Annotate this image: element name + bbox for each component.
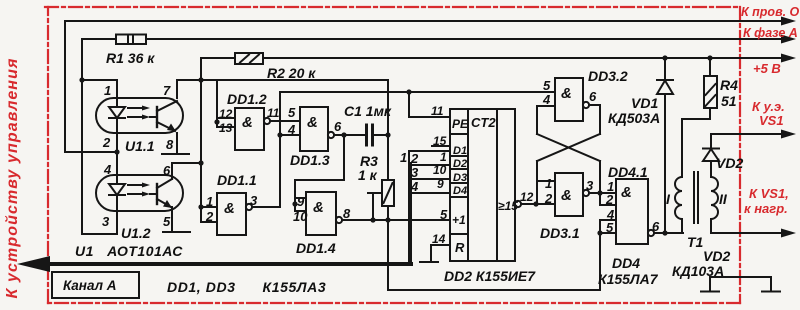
gate DD1.1 <box>217 193 246 235</box>
svg-text:+1: +1 <box>452 213 466 227</box>
capacitor C1 <box>334 134 366 136</box>
U1.1 pin8 to common <box>176 133 178 154</box>
wire R4 to T1 primary <box>682 108 710 177</box>
svg-text:КД503А: КД503А <box>608 110 660 126</box>
wire DD1.2 out to DD1.3 pin5 <box>270 120 300 122</box>
svg-text:10: 10 <box>433 163 447 177</box>
wire: phase line to arrow К фазе А <box>146 38 783 40</box>
svg-text:5: 5 <box>163 214 171 229</box>
svg-text:К пров. О: К пров. О <box>741 5 800 19</box>
svg-text:+5 В: +5 В <box>753 61 781 76</box>
svg-text:К фазе А: К фазе А <box>743 26 798 40</box>
DD1.1 output wire <box>252 206 280 208</box>
U1.1 phototransistor <box>156 107 158 127</box>
wire: U1.1 pin7 collector rail to DD1.2 inputs <box>177 80 217 98</box>
svg-text:DD3.2: DD3.2 <box>588 68 628 84</box>
counter DD2 К155ИЕ7 <box>450 109 515 261</box>
wire: U1.1 pin2 to U1.2 pin4 <box>116 133 118 175</box>
wire DD1.4 output to counter +1 input <box>342 219 450 221</box>
svg-text:D1: D1 <box>453 145 467 157</box>
svg-text:U1.1: U1.1 <box>125 138 155 154</box>
svg-text:8: 8 <box>166 137 174 152</box>
svg-text:5: 5 <box>288 105 296 120</box>
wire: node to U1.1 pin1 <box>82 80 117 98</box>
svg-text:DD4.1: DD4.1 <box>608 164 648 180</box>
svg-text:DD3.1: DD3.1 <box>540 225 580 241</box>
svg-text:DD1.4: DD1.4 <box>296 240 336 256</box>
svg-text:6: 6 <box>589 89 597 104</box>
DD4.1 pins 4,5 tie <box>600 219 616 221</box>
svg-text:Канал А: Канал А <box>63 278 117 293</box>
svg-text:D4: D4 <box>453 185 467 197</box>
DD2 R input to common <box>431 245 450 261</box>
arrow К пров.О <box>781 17 796 26</box>
gate DD3.2 <box>555 78 583 121</box>
svg-text:&: & <box>561 85 572 102</box>
svg-text:11: 11 <box>431 104 444 118</box>
U1.2 LED <box>116 175 118 184</box>
DD2 carry output <box>515 201 521 207</box>
svg-text:II: II <box>719 191 728 207</box>
resistor R2 <box>235 53 263 64</box>
svg-text:4: 4 <box>542 92 551 107</box>
transformer T1 secondary winding II <box>711 177 718 219</box>
gate DD1.4 <box>306 192 336 235</box>
svg-text:1: 1 <box>400 150 407 165</box>
link row 1 <box>409 151 450 165</box>
DD3.2 pin4 stub <box>537 105 555 107</box>
svg-text:&: & <box>313 199 324 216</box>
DD3.1 output wire to DD4.1 <box>589 192 616 194</box>
svg-text:8: 8 <box>343 206 351 221</box>
link row 3 <box>409 179 450 193</box>
resistor R1 <box>116 35 146 45</box>
U1.2 light arrows <box>128 184 146 186</box>
resistor R4 <box>709 58 711 76</box>
svg-text:D3: D3 <box>453 172 467 184</box>
wire: neutral line К пров.О <box>65 21 783 152</box>
svg-text:к нагр.: к нагр. <box>744 201 788 216</box>
svg-text:U1.2: U1.2 <box>121 225 151 241</box>
svg-text:&: & <box>224 200 235 217</box>
svg-text:R4: R4 <box>720 77 738 93</box>
optocoupler U1.1 body <box>96 98 183 133</box>
arrow К фазе А <box>781 35 796 44</box>
svg-text:3: 3 <box>250 193 258 208</box>
svg-text:VD2: VD2 <box>703 248 730 264</box>
svg-text:14: 14 <box>432 232 446 246</box>
svg-text:VS1: VS1 <box>759 113 784 128</box>
node dot R1/U1 <box>79 77 84 82</box>
optocoupler U1.2 body <box>96 175 183 211</box>
svg-text:3: 3 <box>102 214 110 229</box>
arrow К VS1 к нагр <box>781 229 796 238</box>
svg-text:К VS1,: К VS1, <box>749 186 789 201</box>
thick control bus vertical <box>408 164 412 264</box>
svg-text:1 к: 1 к <box>358 167 378 183</box>
svg-text:К у.э.: К у.э. <box>752 99 785 114</box>
wire vertical through C1 right / R3 <box>387 80 389 180</box>
link row 2 <box>409 165 450 179</box>
wire T1 secondary to load arrow <box>711 219 783 233</box>
diode VD1 <box>664 58 666 80</box>
svg-text:DD2 К155ИЕ7: DD2 К155ИЕ7 <box>444 268 536 284</box>
svg-text:6: 6 <box>163 163 171 178</box>
svg-text:R1 36 к: R1 36 к <box>106 50 155 66</box>
svg-text:2: 2 <box>410 151 419 166</box>
svg-text:&: & <box>561 187 572 204</box>
wire: left branch to pin2 node <box>65 151 117 153</box>
transformer T1 core <box>693 172 695 223</box>
svg-text:11: 11 <box>267 106 280 120</box>
svg-text:D2: D2 <box>453 158 467 170</box>
wire: +5V rail to arrow <box>263 57 783 59</box>
wire: phase line К фазе А left of R1 <box>82 38 116 40</box>
svg-text:DD1.2: DD1.2 <box>227 91 267 107</box>
node dot R2 bottom <box>198 77 203 82</box>
wire: DD1.2 input tie <box>216 80 218 127</box>
svg-text:5: 5 <box>543 78 551 93</box>
arrow +5 В <box>781 54 796 63</box>
R3 tap <box>368 192 382 194</box>
svg-text:К155ЛА7: К155ЛА7 <box>598 271 659 287</box>
svg-text:С1 1мк: С1 1мк <box>344 103 392 119</box>
svg-text:51: 51 <box>721 93 737 109</box>
svg-text:&: & <box>307 114 318 131</box>
svg-text:R2 20 к: R2 20 к <box>267 65 316 81</box>
svg-text:&: & <box>621 184 632 201</box>
diode VD2 <box>710 161 712 177</box>
svg-text:К устройству управления: К устройству управления <box>4 58 21 299</box>
U1.1 LED <box>116 98 118 107</box>
svg-text:PE: PE <box>452 117 469 131</box>
svg-text:12: 12 <box>520 190 534 204</box>
svg-text:VD2: VD2 <box>716 155 743 171</box>
svg-text:7: 7 <box>163 83 171 98</box>
channel box Канал А <box>52 272 139 298</box>
resistor R3 <box>382 180 394 206</box>
svg-text:T1: T1 <box>687 234 704 250</box>
svg-text:1: 1 <box>104 83 111 98</box>
U1.2 pin5 to common <box>171 207 173 232</box>
wire DD1.3 pin4 feedback riser <box>279 92 281 207</box>
svg-text:VD1: VD1 <box>631 95 658 111</box>
chassis strap bottom right <box>710 277 771 291</box>
svg-text:15: 15 <box>433 134 447 148</box>
U1.2 phototransistor <box>156 184 158 204</box>
svg-text:DD1.3: DD1.3 <box>290 152 330 168</box>
gate DD4.1 <box>616 179 648 244</box>
node dot pin2 <box>114 149 119 154</box>
svg-text:9: 9 <box>437 177 444 191</box>
U1.1 light arrows <box>128 107 146 109</box>
wire PE branch <box>409 92 450 117</box>
transformer T1 primary winding I <box>675 177 682 219</box>
svg-text:13: 13 <box>219 121 233 135</box>
D1 stub <box>432 145 450 147</box>
svg-text:DD1, DD3 К155ЛА3: DD1, DD3 К155ЛА3 <box>167 279 326 295</box>
svg-text:U1 АОТ101АС: U1 АОТ101АС <box>75 243 183 259</box>
svg-text:3: 3 <box>411 165 419 180</box>
wire: R1 left drop to U1.2 pin3 <box>82 39 117 234</box>
wire C1 left node down to DD1.4 inputs <box>295 135 344 211</box>
svg-text:6: 6 <box>334 119 342 134</box>
wire feedback line to DD3.2 pin5 <box>280 91 555 93</box>
thick control bus horizontal with arrow to control device <box>30 262 411 266</box>
svg-text:1: 1 <box>440 150 447 164</box>
svg-text:6: 6 <box>652 219 660 234</box>
svg-text:DD1.1: DD1.1 <box>217 172 257 188</box>
svg-text:4: 4 <box>103 162 112 177</box>
gate DD1.3 <box>300 107 328 151</box>
arrow К у.э. VS1 <box>781 130 796 139</box>
wire: R2 vertical to DD1.1 inputs <box>200 58 202 207</box>
svg-text:R: R <box>455 240 465 255</box>
svg-text:1: 1 <box>545 176 552 191</box>
svg-text:&: & <box>242 114 253 131</box>
wire: +5V rail corner through R2 <box>201 57 235 59</box>
svg-text:12: 12 <box>219 107 233 121</box>
svg-text:5: 5 <box>440 207 448 222</box>
gate DD1.2 <box>235 108 264 150</box>
svg-text:2: 2 <box>605 192 614 207</box>
cross-coupling RS flip-flop <box>536 106 538 134</box>
svg-text:4: 4 <box>410 179 419 194</box>
U1.2 pin6 wire to DD1.1 net <box>172 163 201 179</box>
svg-text:CT2: CT2 <box>471 115 496 130</box>
svg-text:10: 10 <box>293 209 308 224</box>
svg-text:9: 9 <box>297 194 305 209</box>
svg-text:3: 3 <box>586 178 594 193</box>
svg-text:DD4: DD4 <box>612 255 640 271</box>
DD4.1 output wire <box>654 232 683 234</box>
svg-text:2: 2 <box>102 135 111 150</box>
svg-text:2: 2 <box>544 191 553 206</box>
gate DD3.1 <box>555 173 583 216</box>
DD1.1 input wires <box>201 206 217 208</box>
wire: top of DD1.2 box net <box>217 79 388 81</box>
wire oscillator output down and right to DD4.1 pins 4,5 <box>388 220 600 290</box>
